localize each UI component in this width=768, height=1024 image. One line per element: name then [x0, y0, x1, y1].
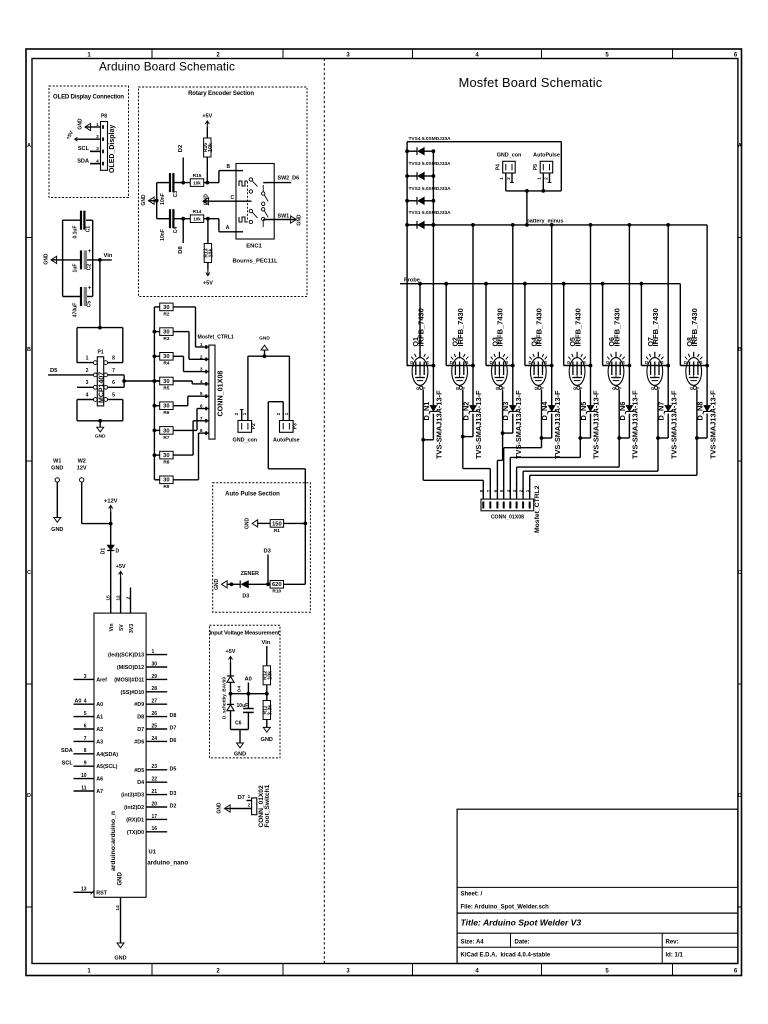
svg-text:S: S — [661, 360, 664, 365]
probe drop Q7 — [640, 284, 642, 366]
capacitor C2 1uF polarized — [80, 250, 82, 269]
svg-text:OLED Display Connection: OLED Display Connection — [53, 95, 124, 101]
svg-text:CONN_01X08: CONN_01X08 — [491, 515, 524, 521]
svg-text:30: 30 — [152, 661, 158, 667]
svg-text:R9: R9 — [163, 484, 169, 490]
svg-text:R6: R6 — [163, 410, 169, 416]
ENC1 switch contacts — [262, 185, 264, 192]
battery drop Q1 — [432, 225, 434, 366]
svg-text:6: 6 — [84, 723, 87, 729]
P1 pin bubbles — [93, 373, 97, 377]
svg-text:GND: GND — [51, 466, 63, 472]
svg-text:D: D — [684, 360, 687, 365]
frame row ticks left — [26, 237, 32, 239]
resistor R14 10k — [190, 215, 203, 223]
svg-text:3.3k: 3.3k — [267, 705, 273, 716]
svg-text:D3: D3 — [264, 549, 272, 555]
probe drop Q8 — [679, 284, 681, 366]
svg-text:(led)(SCK)D13: (led)(SCK)D13 — [108, 653, 144, 659]
svg-text:D_N4: D_N4 — [540, 401, 549, 421]
svg-text:TVS-SMAJ13A-13-F: TVS-SMAJ13A-13-F — [708, 390, 717, 459]
svg-text:D7: D7 — [238, 795, 245, 801]
svg-text:13: 13 — [81, 887, 87, 893]
svg-text:CONN_01X08: CONN_01X08 — [215, 371, 224, 417]
svg-text:A0: A0 — [75, 699, 82, 705]
svg-text:10nF: 10nF — [160, 229, 166, 241]
transistor Q5 IRFB_7430 — [569, 358, 585, 386]
svg-text:P8: P8 — [101, 114, 107, 120]
svg-text:S: S — [622, 360, 625, 365]
svg-text:GND: GND — [217, 802, 223, 814]
svg-text:#D9: #D9 — [134, 702, 144, 708]
svg-text:D4: D4 — [137, 780, 144, 786]
battery drop Q8 — [706, 225, 708, 366]
TVS rail right — [432, 151, 434, 225]
svg-text:15: 15 — [105, 595, 111, 601]
arduino left pin A2 — [74, 728, 95, 730]
svg-text:D2: D2 — [170, 804, 177, 810]
svg-text:R3: R3 — [163, 336, 169, 342]
+5V label on P8 pin2 — [75, 138, 91, 140]
arduino right pin (int2)D2 — [146, 806, 167, 808]
gate bus Q1 — [422, 440, 424, 481]
svg-text:30: 30 — [163, 478, 169, 484]
resistor R11 3.3k — [266, 694, 268, 700]
svg-text:W1: W1 — [53, 459, 61, 465]
P1 pin1 wire — [77, 362, 93, 364]
TVS diode TVS4 5.0SMDJ33A — [407, 150, 417, 152]
Q5 gate — [577, 386, 580, 389]
svg-text:+5V: +5V — [116, 564, 126, 570]
junction A0 wire — [231, 693, 267, 695]
SDA label on P8 pin4 — [90, 163, 101, 165]
svg-text:3V3: 3V3 — [129, 624, 135, 633]
net label stub D8 — [181, 217, 185, 221]
svg-text:D_N3: D_N3 — [501, 402, 510, 421]
Input Voltage Measurement box — [210, 625, 281, 758]
svg-text:+: + — [88, 286, 92, 292]
svg-text:Mosfet_CTRL1: Mosfet_CTRL1 — [198, 335, 234, 341]
TVS diode D_N5 TVS-SMAJ13A-13-F — [590, 366, 592, 406]
svg-text:30: 30 — [163, 453, 169, 459]
svg-text:Vin: Vin — [262, 640, 271, 646]
svg-text:GND: GND — [261, 737, 273, 743]
svg-text:26: 26 — [152, 711, 158, 717]
svg-text:File: Arduino_Spot_Welder.sch: File: Arduino_Spot_Welder.sch — [461, 905, 550, 911]
P1 pin8 wire — [108, 362, 123, 364]
GND flag SW1 — [291, 216, 297, 223]
svg-text:1: 1 — [248, 794, 251, 799]
Q2 gate — [459, 386, 462, 389]
schematic sheet separator line — [323, 59, 325, 964]
svg-text:S: S — [466, 360, 469, 365]
GND flag encoder rail — [149, 197, 155, 204]
svg-text:A1: A1 — [96, 715, 103, 721]
svg-text:ZENER: ZENER — [241, 571, 259, 577]
Auto Pulse Section box — [213, 483, 311, 612]
P1 pin5 wire — [108, 399, 123, 401]
Mosfet_CTRL1 pin 8 — [204, 432, 209, 434]
frame column ticks top — [151, 49, 153, 59]
probe drop Q5 — [563, 284, 565, 366]
svg-text:12: 12 — [115, 595, 121, 601]
svg-text:D7: D7 — [137, 727, 144, 733]
GND flag on P8 pin1 — [85, 123, 91, 130]
capacitor C5 470uF polarized — [80, 287, 82, 306]
svg-text:Foot_Switch1: Foot_Switch1 — [264, 784, 271, 827]
svg-text:23: 23 — [152, 764, 158, 770]
svg-text:SW1: SW1 — [278, 214, 290, 220]
svg-text:AutoPulse: AutoPulse — [533, 153, 560, 159]
svg-text:D4: D4 — [237, 686, 243, 692]
foot switch pin1 wire — [246, 800, 251, 802]
P1 pin7 wire — [108, 374, 125, 376]
P1 pin bubbles — [93, 385, 97, 389]
TVS diode TVS3 5.0SMDJ33A — [407, 175, 417, 177]
Mosfet_CTRL2 pin 1 — [529, 487, 531, 499]
svg-text:5: 5 — [84, 711, 87, 717]
gate bus Q8 — [696, 438, 698, 475]
svg-text:D2: D2 — [178, 145, 184, 152]
svg-text:G: G — [651, 386, 654, 391]
svg-text:20: 20 — [152, 801, 158, 807]
arduino RST pin — [74, 891, 95, 893]
svg-text:(RX)D1: (RX)D1 — [126, 817, 144, 823]
connector Mosfet_CTRL1 body — [209, 345, 215, 439]
arduino left pin A5(SCL) — [74, 765, 95, 767]
resistor R6 30 — [153, 404, 157, 408]
svg-text:D_N7: D_N7 — [657, 402, 666, 421]
P8 pin 1 wire — [90, 126, 101, 128]
svg-text:10k: 10k — [193, 217, 201, 222]
svg-text:+: + — [88, 249, 92, 255]
svg-text:G: G — [496, 386, 499, 391]
svg-text:G: G — [535, 386, 538, 391]
svg-text:GND: GND — [245, 517, 251, 529]
Mosfet_CTRL1 pin 2 — [204, 358, 209, 360]
arduino U1 body — [94, 613, 146, 897]
svg-text:#D6: #D6 — [134, 739, 144, 745]
resistor R2 30 — [154, 306, 159, 308]
svg-text:S: S — [583, 360, 586, 365]
svg-text:A0: A0 — [245, 677, 252, 683]
svg-text:D6: D6 — [170, 738, 177, 744]
svg-text:0.1uF: 0.1uF — [73, 225, 79, 238]
svg-text:D: D — [529, 360, 532, 365]
svg-text:TVS-SMAJ13A-13-F: TVS-SMAJ13A-13-F — [631, 390, 640, 459]
svg-text:GND_con: GND_con — [233, 438, 258, 444]
svg-text:G: G — [612, 386, 615, 391]
svg-text:10k: 10k — [193, 181, 201, 186]
svg-text:21: 21 — [152, 789, 158, 795]
transistor Q6 IRFB_7430 — [608, 358, 624, 386]
arduino left pin Aref — [74, 678, 95, 680]
driver P1 MCP1407 body — [97, 357, 103, 406]
svg-text:D8: D8 — [137, 715, 144, 721]
svg-text:Sheet: /: Sheet: / — [461, 892, 483, 898]
P3 pin2 wire to auto pulse section — [282, 402, 284, 421]
arduino left pin A3 — [74, 740, 95, 742]
bottom rail C6 D4 — [231, 729, 249, 731]
svg-text:1: 1 — [96, 122, 99, 128]
svg-text:6: 6 — [112, 380, 115, 386]
connector P2 GND_con body — [238, 421, 252, 433]
arduino left pin A6 — [74, 778, 95, 780]
svg-text:D_N6: D_N6 — [618, 402, 627, 421]
svg-text:Size: A4: Size: A4 — [461, 940, 485, 946]
battery drop Q5 — [590, 225, 592, 366]
svg-text:GND: GND — [118, 872, 124, 886]
ENC1 dashed shaft line — [247, 182, 249, 222]
svg-text:12V: 12V — [77, 466, 87, 472]
svg-text:arduino:arduino_n: arduino:arduino_n — [110, 811, 117, 871]
junction R13 — [206, 217, 210, 221]
ENC1 waveform glyph top — [239, 181, 248, 186]
capacitor C6 10uF — [247, 694, 249, 709]
resistor R8 30 — [153, 453, 157, 457]
wire loop P1 bottom — [76, 400, 78, 421]
wire R4 to Mosfet_CTRL1 pin 3 — [173, 355, 183, 357]
svg-text:(SS)#D10: (SS)#D10 — [121, 690, 145, 696]
svg-text:GND: GND — [234, 752, 246, 758]
svg-text:(TX)D0: (TX)D0 — [127, 830, 144, 836]
svg-text:SCL: SCL — [62, 761, 74, 767]
svg-text:SDA: SDA — [61, 748, 73, 754]
svg-text:#D5: #D5 — [134, 768, 144, 774]
svg-text:3: 3 — [86, 380, 89, 386]
svg-text:A6: A6 — [96, 777, 103, 783]
arduino top pin 3V3 — [130, 588, 132, 614]
transistor Q1 IRFB_7430 — [412, 358, 428, 386]
svg-text:GND: GND — [204, 194, 210, 206]
svg-text:(int2)D2: (int2)D2 — [124, 805, 144, 811]
TVS rail left — [406, 142, 408, 366]
svg-text:Rotary Encoder Section: Rotary Encoder Section — [188, 91, 254, 97]
svg-text:S: S — [426, 360, 429, 365]
svg-text:TVS-SMAJ13A-13-F: TVS-SMAJ13A-13-F — [553, 390, 562, 459]
svg-text:B: B — [227, 164, 231, 170]
probe drop Q3 — [485, 284, 487, 366]
transistor Q2 IRFB_7430 — [452, 358, 468, 386]
TVS diode D_N2 TVS-SMAJ13A-13-F — [472, 366, 474, 406]
Q7 gate — [654, 386, 657, 389]
svg-text:SDA: SDA — [77, 158, 89, 164]
svg-text:P4: P4 — [495, 164, 501, 170]
connector P5 AutoPulse body — [540, 161, 553, 173]
wire P2 P3 gnd bus — [248, 355, 290, 357]
svg-text:Probe: Probe — [404, 277, 420, 283]
svg-text:(int3)#D3: (int3)#D3 — [121, 793, 144, 799]
svg-text:30: 30 — [163, 428, 169, 434]
svg-text:Mosfet Board Schematic: Mosfet Board Schematic — [459, 75, 603, 90]
Probe wire — [400, 283, 680, 285]
svg-text:C6: C6 — [235, 721, 242, 727]
P1 pin3 wire — [77, 386, 93, 388]
svg-text:D: D — [410, 360, 413, 365]
transistor Q7 IRFB_7430 — [647, 358, 663, 386]
arduino left pin A1 — [74, 716, 95, 718]
arduino right pin (RX)D1 — [146, 818, 167, 820]
svg-text:+5V: +5V — [202, 114, 212, 120]
svg-text:Arduino Board Schematic: Arduino Board Schematic — [99, 60, 235, 74]
TVS diode D_N3 TVS-SMAJ13A-13-F — [512, 366, 514, 406]
battery drop Q7 — [667, 225, 669, 366]
svg-text:R8: R8 — [163, 460, 169, 466]
svg-text:D: D — [490, 360, 493, 365]
svg-text:4: 4 — [84, 699, 87, 705]
arduino right pin (SS)#D10 — [146, 691, 167, 693]
P8 pin 3 wire — [90, 150, 101, 152]
transistor Q4 IRFB_7430 — [530, 358, 546, 386]
svg-text:U1: U1 — [149, 850, 157, 856]
svg-text:C3: C3 — [173, 191, 179, 198]
svg-text:arduino_nano: arduino_nano — [147, 860, 188, 867]
Mosfet_CTRL1 pin 3 — [204, 371, 209, 373]
svg-text:22: 22 — [152, 777, 158, 783]
svg-text:(MOSI)#D11: (MOSI)#D11 — [114, 677, 144, 683]
svg-text:IRFB_7430: IRFB_7430 — [573, 308, 582, 346]
resistor R1 150 — [257, 522, 270, 524]
svg-text:C5: C5 — [87, 301, 93, 308]
frame row ticks right — [738, 237, 742, 239]
svg-text:R10: R10 — [272, 589, 281, 595]
connector Mosfet_CTRL2 body — [481, 499, 534, 511]
svg-text:R5: R5 — [163, 385, 169, 391]
arduino right pin D8 — [146, 716, 167, 718]
svg-text:2: 2 — [248, 803, 251, 808]
svg-text:4: 4 — [86, 392, 89, 398]
Q8 gate — [693, 386, 696, 389]
svg-text:TVS-SMAJ13A-13-F: TVS-SMAJ13A-13-F — [592, 390, 601, 459]
svg-text:G: G — [416, 386, 419, 391]
svg-text:IRFB_7430: IRFB_7430 — [651, 308, 660, 346]
svg-text:A4(SDA): A4(SDA) — [96, 752, 118, 758]
arduino right pin (MISO)D12 — [146, 666, 167, 668]
svg-text:R4: R4 — [163, 361, 169, 367]
TVS diode D_N8 TVS-SMAJ13A-13-F — [706, 366, 708, 406]
svg-text:IRFB_7430: IRFB_7430 — [416, 308, 425, 346]
svg-text:5V: 5V — [119, 624, 125, 631]
wire R6 to Mosfet_CTRL1 pin 5 — [173, 405, 188, 407]
resistor R4 30 — [153, 354, 157, 358]
foot switch pin2 wire — [230, 808, 252, 810]
svg-text:Date:: Date: — [515, 940, 530, 946]
svg-text:D5: D5 — [50, 368, 58, 374]
wire P1 pin6 to R5 — [124, 380, 160, 382]
row C wire GND — [203, 198, 209, 205]
arduino left pin A4(SDA) — [74, 753, 95, 755]
gate bus Q2 — [462, 437, 464, 469]
svg-text:30: 30 — [163, 305, 169, 311]
probe drop Q4 — [524, 284, 526, 366]
arduino right pin D7 — [146, 728, 167, 730]
GND symbol under P1 — [99, 421, 101, 427]
Mosfet_CTRL2 pin 5 — [503, 487, 505, 499]
svg-text:10k: 10k — [267, 671, 273, 680]
svg-text:470uF: 470uF — [73, 303, 79, 317]
svg-text:D3: D3 — [170, 791, 177, 797]
svg-text:Id: 1/1: Id: 1/1 — [666, 953, 684, 959]
svg-text:8: 8 — [112, 356, 115, 362]
P1 pin bubbles — [93, 398, 97, 402]
svg-text:R7: R7 — [163, 435, 169, 441]
svg-text:D3: D3 — [242, 594, 249, 600]
svg-text:P5: P5 — [533, 164, 539, 170]
svg-text:1: 1 — [152, 649, 155, 655]
wire R5 to Mosfet_CTRL1 pin 4 — [173, 380, 192, 382]
svg-text:Aref: Aref — [96, 677, 107, 683]
svg-text:C1: C1 — [86, 226, 92, 233]
svg-text:OLED_Display: OLED_Display — [109, 125, 116, 173]
GND flag foot switch — [225, 805, 231, 812]
svg-text:A0: A0 — [96, 702, 103, 708]
svg-text:IRFB_7430: IRFB_7430 — [456, 308, 465, 346]
svg-text:10k: 10k — [209, 249, 215, 258]
svg-text:D: D — [606, 360, 609, 365]
svg-text:A2: A2 — [96, 727, 103, 733]
Mosfet_CTRL1 pin 4 — [204, 383, 209, 385]
svg-text:Vin: Vin — [109, 624, 115, 632]
encoder ENC1 body — [236, 164, 274, 240]
svg-text:GND: GND — [44, 253, 50, 265]
svg-text:150: 150 — [272, 521, 282, 527]
svg-text:SCL: SCL — [78, 146, 90, 152]
svg-text:R15: R15 — [193, 173, 202, 179]
capacitor C4 10nF — [169, 209, 171, 228]
arduino right pin (TX)D0 — [146, 831, 167, 833]
Q6 gate — [616, 386, 619, 389]
Mosfet_CTRL1 pin 1 — [204, 346, 209, 348]
svg-text:TVS-SMAJ13A-13-F: TVS-SMAJ13A-13-F — [474, 390, 483, 459]
connector P8 OLED_Display body — [101, 122, 108, 171]
svg-text:GND: GND — [51, 527, 63, 533]
svg-text:GND: GND — [95, 434, 106, 440]
svg-text:C2: C2 — [87, 264, 93, 271]
svg-text:Rev:: Rev: — [666, 940, 679, 946]
resistor R7 30 — [153, 429, 157, 433]
Mosfet_CTRL1 pin 6 — [204, 408, 209, 410]
svg-text:D_N2: D_N2 — [461, 402, 470, 421]
svg-text:P3: P3 — [292, 423, 298, 429]
P1 pin4 wire — [77, 399, 93, 401]
svg-text:G: G — [456, 386, 459, 391]
svg-text:29: 29 — [152, 674, 158, 680]
svg-text:GND_con: GND_con — [497, 153, 522, 159]
svg-text:3: 3 — [84, 674, 87, 680]
svg-text:TVS2 5.0SMDJ33A: TVS2 5.0SMDJ33A — [409, 186, 452, 192]
svg-text:G: G — [573, 386, 576, 391]
svg-text:7: 7 — [112, 368, 115, 374]
Q1 gate — [420, 386, 423, 389]
svg-text:A: A — [27, 143, 31, 149]
Mosfet_CTRL1 pin 5 — [204, 395, 209, 397]
gate bus Q4 — [541, 438, 543, 448]
arduino right pin (led)(SCK)D13 — [146, 654, 167, 656]
svg-text:GND: GND — [297, 214, 303, 226]
svg-text:R1: R1 — [274, 528, 280, 534]
svg-text:IRFB_7430: IRFB_7430 — [535, 308, 544, 346]
arduino right pin #D5 — [146, 769, 167, 771]
GND flag capacitor bank — [51, 256, 57, 263]
svg-text:GND: GND — [114, 956, 126, 962]
wire R8 to Mosfet_CTRL1 pin 7 — [173, 454, 193, 456]
connector P4 GND_con body — [503, 161, 516, 173]
transistor Q8 IRFB_7430 — [686, 358, 702, 386]
svg-text:SW2_D6: SW2_D6 — [278, 175, 300, 181]
P8 pin 4 wire — [90, 163, 101, 165]
junction D2 — [181, 181, 185, 185]
svg-text:GND: GND — [214, 578, 220, 590]
